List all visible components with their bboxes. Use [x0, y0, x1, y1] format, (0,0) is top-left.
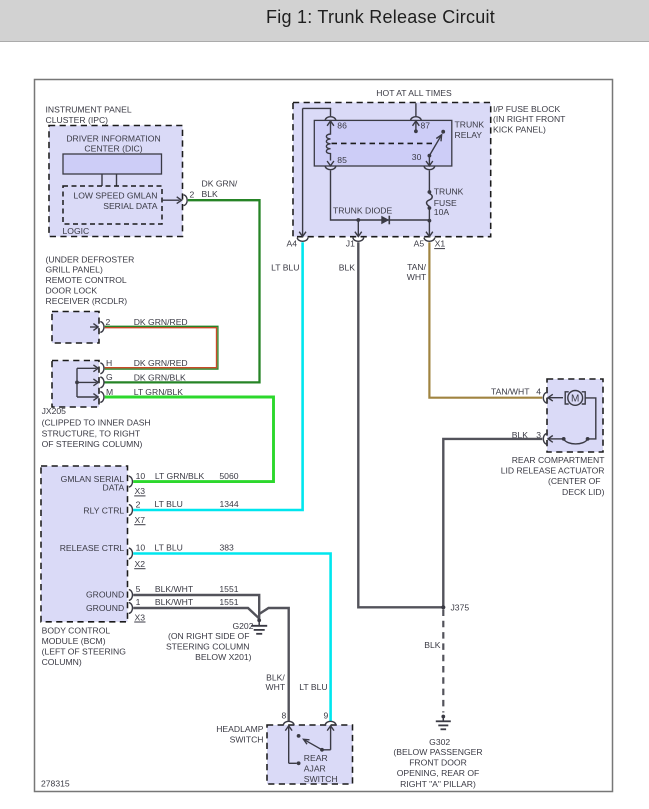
svg-text:X2: X2	[135, 559, 146, 569]
BCM pin 2 X7 (RLY CTRL)	[83, 499, 238, 525]
low speed GMLAN serial data logic box	[63, 186, 163, 236]
svg-text:M: M	[106, 387, 113, 397]
svg-text:BLK: BLK	[424, 640, 441, 650]
svg-text:BLK/WHT: BLK/WHT	[155, 597, 194, 607]
pin G connector (JX205)	[93, 372, 186, 388]
diagram frame	[35, 80, 613, 792]
svg-text:DATA: DATA	[103, 483, 125, 493]
wire BLK/WHT: G202 branch to headlamp switch pin 8	[259, 608, 289, 721]
svg-text:1344: 1344	[220, 499, 239, 509]
svg-text:LT GRN/BLK: LT GRN/BLK	[134, 387, 184, 397]
wire BLK: actuator pin 3 to J375	[443, 439, 542, 606]
svg-text:CLUSTER (IPC): CLUSTER (IPC)	[46, 115, 109, 125]
svg-text:X3: X3	[135, 486, 146, 496]
wire BLK/WHT 1551: BCM pin 1 to G202	[133, 608, 259, 619]
svg-text:RLY CTRL: RLY CTRL	[83, 506, 124, 516]
relay pin 87	[411, 117, 431, 133]
svg-text:SWITCH: SWITCH	[304, 774, 338, 784]
svg-text:HEADLAMP: HEADLAMP	[216, 724, 264, 734]
ground G302	[436, 715, 451, 730]
relay armature dashed link	[332, 142, 434, 144]
svg-text:INSTRUMENT PANEL: INSTRUMENT PANEL	[46, 104, 132, 114]
svg-text:383: 383	[220, 543, 235, 553]
svg-text:LT BLU: LT BLU	[271, 263, 299, 273]
node J375	[441, 603, 469, 613]
svg-text:GROUND: GROUND	[86, 589, 124, 599]
fuse block exit A4	[287, 232, 309, 249]
svg-text:8: 8	[282, 711, 287, 721]
svg-text:X7: X7	[135, 515, 146, 525]
DIC display block	[63, 154, 162, 186]
wire: relay 85 to diode row	[331, 170, 430, 220]
svg-text:85: 85	[337, 155, 347, 165]
remote control door lock receiver (RCDLR) box	[46, 254, 135, 343]
svg-text:G302: G302	[429, 737, 450, 747]
wire label BLK (J1)	[339, 263, 356, 273]
svg-text:SWITCH: SWITCH	[230, 734, 264, 744]
svg-text:G: G	[106, 372, 113, 382]
svg-text:BELOW X201): BELOW X201)	[195, 652, 251, 662]
svg-text:10A: 10A	[434, 207, 450, 217]
svg-text:REAR: REAR	[304, 753, 328, 763]
svg-text:X3: X3	[135, 612, 146, 622]
svg-text:BLK/: BLK/	[266, 672, 285, 682]
svg-text:DECK LID): DECK LID)	[562, 487, 605, 497]
svg-text:DK GRN/RED: DK GRN/RED	[134, 317, 188, 327]
svg-text:DK GRN/: DK GRN/	[202, 179, 238, 189]
rear ajar switch label	[304, 753, 338, 784]
svg-text:TRUNK: TRUNK	[455, 120, 485, 130]
svg-text:Fig 1: Trunk Release Circuit: Fig 1: Trunk Release Circuit	[266, 7, 495, 27]
trunk diode	[333, 205, 392, 224]
title bar	[0, 0, 649, 42]
wire label TAN/WHT (A5)	[407, 262, 427, 282]
svg-text:1: 1	[136, 597, 141, 607]
wire BLK: J1 to J375	[358, 242, 441, 607]
svg-text:GROUND: GROUND	[86, 603, 124, 613]
svg-text:SERIAL DATA: SERIAL DATA	[103, 201, 158, 211]
svg-text:278315: 278315	[41, 779, 70, 789]
headlamp switch box	[216, 724, 352, 784]
svg-text:TRUNK DIODE: TRUNK DIODE	[333, 205, 392, 215]
svg-text:JX205: JX205	[42, 406, 67, 416]
svg-text:LOW SPEED GMLAN: LOW SPEED GMLAN	[73, 191, 157, 201]
wire: relay pin 86 to A4 rail	[303, 108, 332, 236]
svg-text:9: 9	[324, 711, 329, 721]
trunk fuse 10A	[427, 170, 464, 220]
svg-text:G202: G202	[232, 621, 253, 631]
svg-text:87: 87	[421, 121, 431, 131]
svg-text:COLUMN): COLUMN)	[42, 657, 82, 667]
hot at all times feed label	[376, 88, 452, 98]
svg-text:(IN RIGHT FRONT: (IN RIGHT FRONT	[493, 114, 566, 124]
svg-text:TAN/: TAN/	[407, 262, 427, 272]
wire LT BLU 1344: A4 to BCM RLY CTRL	[133, 242, 302, 510]
wire label LT BLU (pin 9)	[299, 682, 327, 692]
pin H connector (JX205)	[93, 358, 187, 374]
svg-text:LT GRN/BLK: LT GRN/BLK	[155, 471, 205, 481]
actuator caption	[501, 455, 606, 497]
svg-text:STEERING COLUMN: STEERING COLUMN	[166, 642, 250, 652]
relay switch blade 30-87	[429, 130, 445, 156]
svg-text:5: 5	[136, 584, 141, 594]
fuse block exit J1	[346, 232, 364, 249]
svg-text:LT BLU: LT BLU	[299, 682, 327, 692]
JX205 caption	[42, 406, 151, 449]
svg-text:FRONT DOOR: FRONT DOOR	[409, 758, 467, 768]
svg-text:LT BLU: LT BLU	[155, 499, 183, 509]
wire DK GRN/RED: RCDLR pin 2 to JX205 pin H	[105, 326, 218, 369]
svg-text:RELAY: RELAY	[455, 130, 483, 140]
wire label LT BLU (A4)	[271, 263, 299, 273]
svg-text:LOGIC: LOGIC	[63, 226, 90, 236]
svg-text:LID RELEASE ACTUATOR: LID RELEASE ACTUATOR	[501, 466, 605, 476]
svg-text:HOT AT ALL TIMES: HOT AT ALL TIMES	[376, 88, 452, 98]
svg-text:LT BLU: LT BLU	[155, 543, 183, 553]
svg-text:86: 86	[337, 120, 347, 130]
svg-text:2: 2	[106, 317, 111, 327]
wire LT GRN/BLK 5060: JX205 pin M to BCM pin 10	[105, 397, 274, 482]
svg-text:REMOTE CONTROL: REMOTE CONTROL	[46, 275, 127, 285]
svg-text:1551: 1551	[219, 584, 238, 594]
pin 9 connector (headlamp switch)	[320, 711, 336, 752]
relay pin 86	[325, 117, 347, 132]
svg-text:BLK/WHT: BLK/WHT	[155, 584, 194, 594]
ground G202	[232, 618, 267, 633]
wire label BLK/WHT (pin 8)	[266, 672, 286, 692]
svg-text:(CENTER OF: (CENTER OF	[548, 476, 601, 486]
svg-text:(LEFT OF STEERING: (LEFT OF STEERING	[42, 646, 127, 656]
svg-text:10: 10	[136, 471, 146, 481]
pin 4 connector (actuator)	[491, 387, 563, 404]
svg-text:DK GRN/BLK: DK GRN/BLK	[134, 372, 186, 382]
svg-text:MODULE (BCM): MODULE (BCM)	[42, 636, 106, 646]
svg-text:X1: X1	[435, 239, 446, 249]
svg-text:2: 2	[190, 190, 195, 200]
svg-text:10: 10	[136, 543, 146, 553]
svg-text:A4: A4	[287, 238, 298, 248]
svg-text:5060: 5060	[219, 471, 238, 481]
splice pack JX205 box	[52, 361, 99, 408]
wire label DK GRN/BLK	[202, 179, 238, 199]
figure number 278315	[41, 779, 70, 789]
node: fuse/diode junction to A5	[428, 219, 432, 236]
BCM pin 1 X3 (GROUND)	[86, 597, 239, 622]
wire: battery feed into relay pin 87	[415, 103, 417, 116]
relay pin 30	[412, 152, 435, 170]
svg-text:M: M	[571, 394, 579, 405]
svg-text:1551: 1551	[219, 597, 238, 607]
svg-text:TRUNK: TRUNK	[434, 187, 464, 197]
svg-text:RECEIVER (RCDLR): RECEIVER (RCDLR)	[46, 296, 128, 306]
pin 2 connector (RCDLR)	[90, 317, 188, 333]
wire BLK (dashed): J375 to G302	[424, 610, 443, 713]
wire LT BLU 383: BCM to headlamp switch pin 9	[133, 554, 330, 721]
svg-text:GRILL PANEL): GRILL PANEL)	[46, 265, 103, 275]
trunk relay	[314, 120, 484, 167]
svg-text:OPENING, REAR OF: OPENING, REAR OF	[397, 768, 480, 778]
svg-text:TAN/WHT: TAN/WHT	[491, 387, 530, 397]
rear compartment lid release actuator box	[547, 379, 603, 452]
svg-text:2: 2	[136, 500, 141, 510]
body control module (BCM) box	[41, 466, 128, 622]
rear ajar switch blade	[297, 734, 322, 750]
wire BLK/WHT 1551: BCM pin 5 to G202	[133, 595, 259, 619]
svg-text:A5: A5	[414, 238, 425, 248]
wire TAN/WHT: A5/X1 to actuator pin 4	[429, 242, 542, 397]
svg-text:(BELOW PASSENGER: (BELOW PASSENGER	[393, 747, 482, 757]
relay pin 85	[325, 155, 347, 170]
node: J1 junction on diode row	[356, 218, 360, 236]
svg-text:4: 4	[536, 387, 541, 397]
svg-text:KICK PANEL): KICK PANEL)	[493, 124, 546, 134]
svg-text:REAR COMPARTMENT: REAR COMPARTMENT	[512, 455, 606, 465]
svg-text:RIGHT "A" PILLAR): RIGHT "A" PILLAR)	[400, 779, 476, 789]
svg-text:OF STEERING COLUMN): OF STEERING COLUMN)	[42, 439, 143, 449]
svg-text:J375: J375	[451, 603, 470, 613]
svg-text:(UNDER DEFROSTER: (UNDER DEFROSTER	[46, 254, 135, 264]
svg-text:30: 30	[412, 152, 422, 162]
pin 8 connector (headlamp switch)	[282, 711, 301, 766]
svg-text:BLK: BLK	[202, 189, 219, 199]
svg-text:(ON RIGHT SIDE OF: (ON RIGHT SIDE OF	[168, 631, 250, 641]
wire DK GRN/BLK: IPC pin 2 to JX205 pin G	[105, 200, 260, 382]
svg-text:(CLIPPED TO INNER DASH: (CLIPPED TO INNER DASH	[42, 418, 151, 428]
G302 caption	[393, 737, 482, 789]
svg-text:DK GRN/RED: DK GRN/RED	[134, 358, 188, 368]
svg-text:BLK: BLK	[339, 263, 356, 273]
svg-text:RELEASE CTRL: RELEASE CTRL	[60, 543, 125, 553]
I/P fuse block box	[293, 103, 566, 237]
actuator internal wiring	[548, 398, 596, 444]
motor M (lid release)	[565, 391, 585, 406]
fuse block exit A5 / X1	[414, 232, 446, 249]
pin M connector (JX205)	[93, 387, 183, 403]
svg-text:J1: J1	[346, 238, 355, 248]
svg-text:CENTER (DIC): CENTER (DIC)	[84, 144, 142, 154]
BCM pin 10 X2 (RELEASE CTRL)	[60, 543, 234, 569]
svg-text:WHT: WHT	[266, 682, 286, 692]
svg-text:STRUCTURE, TO RIGHT: STRUCTURE, TO RIGHT	[42, 428, 141, 438]
svg-text:DOOR LOCK: DOOR LOCK	[46, 286, 98, 296]
BCM pin 5 (GROUND)	[86, 584, 239, 600]
G202 caption	[166, 631, 252, 662]
pin 2 connector (IPC serial data out)	[162, 190, 195, 206]
BCM caption	[42, 625, 127, 667]
svg-text:BODY CONTROL: BODY CONTROL	[42, 625, 111, 635]
svg-text:WHT: WHT	[407, 272, 427, 282]
instrument panel cluster (IPC) box	[46, 104, 183, 236]
BCM pin 10 X3 (GMLAN serial data)	[61, 471, 239, 496]
svg-text:AJAR: AJAR	[304, 763, 326, 773]
svg-text:H: H	[106, 358, 112, 368]
svg-text:DRIVER INFORMATION: DRIVER INFORMATION	[66, 134, 160, 144]
pin 3 connector (actuator)	[512, 430, 553, 445]
svg-text:I/P FUSE BLOCK: I/P FUSE BLOCK	[493, 104, 560, 114]
relay coil 86-85	[326, 132, 330, 161]
